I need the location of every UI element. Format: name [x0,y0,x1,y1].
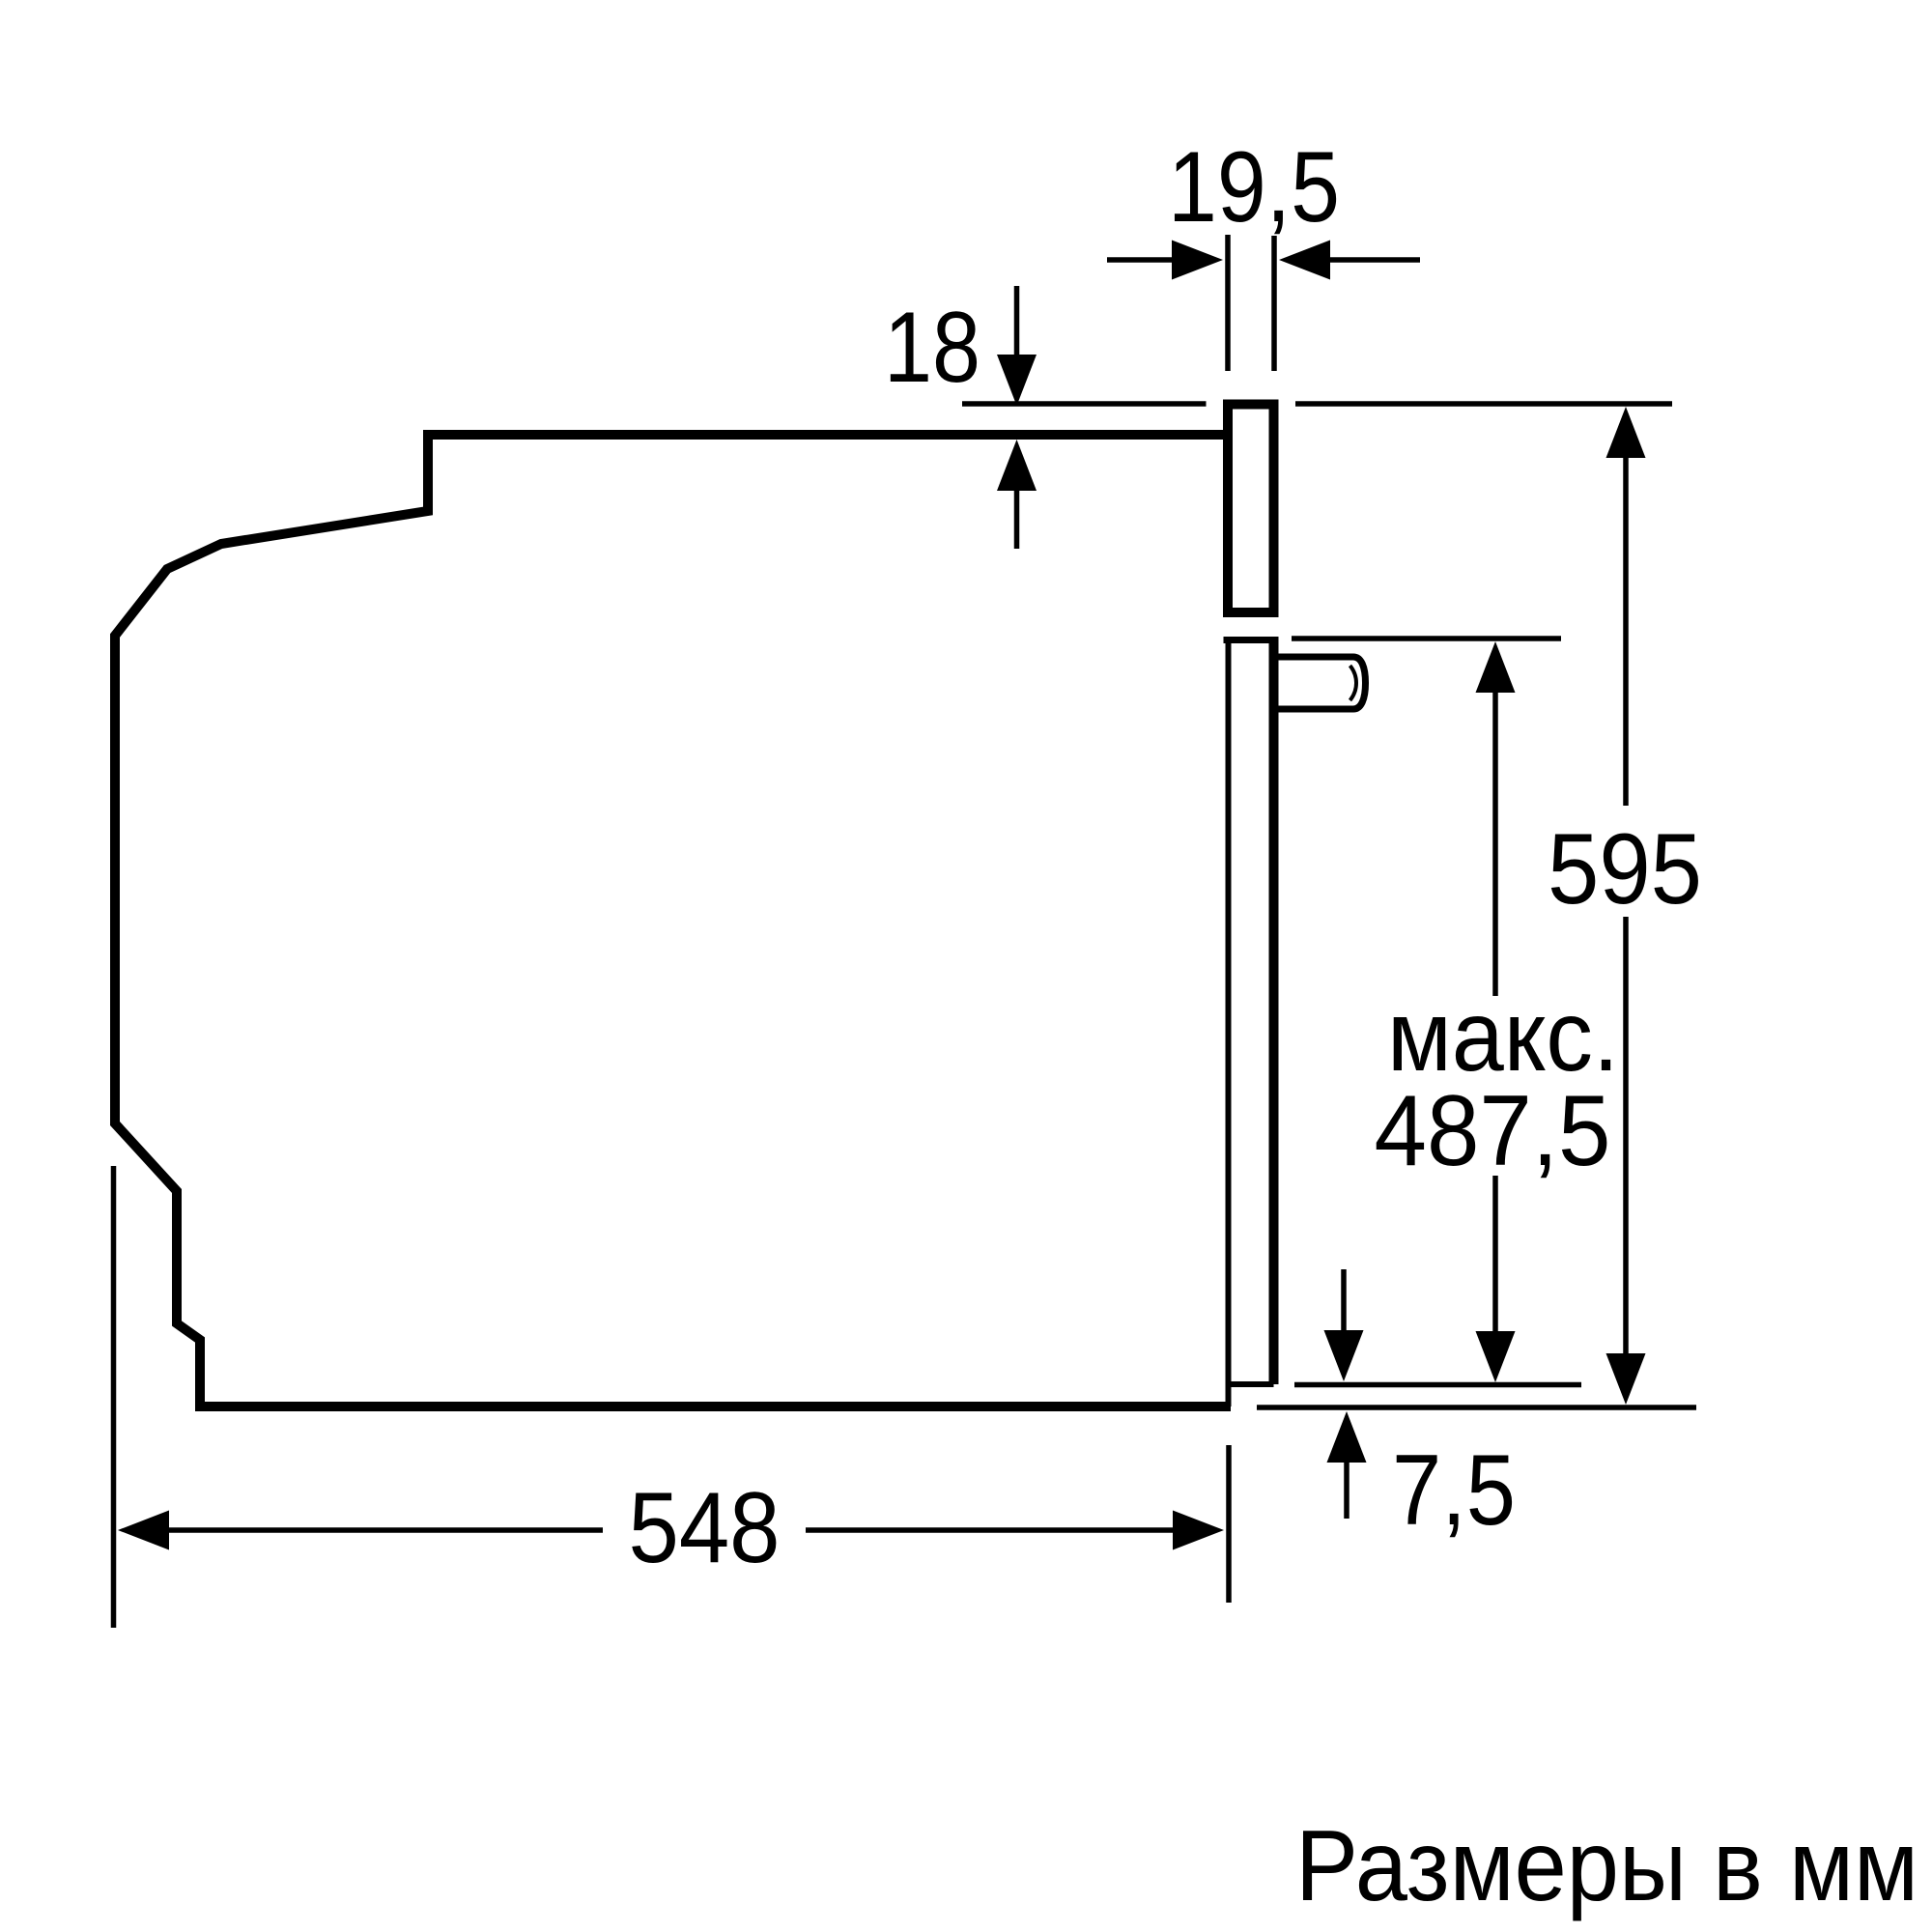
arrowhead 18 up [997,440,1037,491]
dimension line 595 upper segment [1623,456,1629,806]
arrowhead 19.5 right (points left) [1279,241,1330,280]
dimension line 7.5 lower tail [1344,1463,1350,1519]
extension line: 487.5 bottom [1294,1382,1581,1388]
arrowhead 548 right (points right) [1173,1511,1224,1550]
svg-text:548: 548 [629,1472,781,1584]
extension line: 548 right vertical [1226,1445,1232,1603]
extension line: top reference right (595 dim) [1295,401,1672,407]
svg-text:Размеры в мм: Размеры в мм [1295,1810,1918,1922]
svg-text:595: 595 [1548,813,1702,925]
control fascia (front top panel) [1228,405,1274,613]
dimension line 19.5 left segment [1107,257,1175,263]
arrowhead 595 top (points up) [1606,407,1646,458]
svg-text:487,5: 487,5 [1375,1075,1611,1187]
dimension line 487.5 lower segment [1492,1176,1498,1332]
door top edge [1224,637,1274,643]
knob (door handle) [1278,657,1366,709]
dimension line 595 lower segment [1623,917,1629,1354]
dimension line 548 left segment [169,1527,603,1533]
dimension line 7.5 upper tail [1341,1269,1347,1332]
extension line: 595 bottom [1257,1405,1696,1410]
extension line: 19.5 left vertical [1225,235,1231,371]
svg-text:18: 18 [884,292,980,404]
dimension line 548 right segment [806,1527,1173,1533]
svg-text:7,5: 7,5 [1392,1435,1516,1547]
arrowhead 487.5 bottom (points down) [1476,1331,1516,1382]
dimension line 487.5 upper segment [1492,691,1498,996]
door right edge [1269,637,1279,1384]
dimension line 18 lower tail [1014,491,1020,549]
door left edge [1226,640,1232,1385]
door bottom stub [1226,1384,1232,1406]
extension line: top reference left (18 dim) [962,401,1207,407]
arrowhead 18 down [997,355,1037,406]
arrowhead 595 bottom (points down) [1606,1353,1646,1405]
arrowhead 7.5 down [1324,1330,1364,1381]
extension line: 548 left vertical [111,1166,117,1628]
svg-text:19,5: 19,5 [1168,131,1340,243]
arrowhead 487.5 top (points up) [1476,641,1516,693]
arrowhead 19.5 left (points right) [1172,241,1223,280]
door bottom edge [1229,1381,1274,1387]
arrowhead 548 left (points left) [118,1511,169,1550]
dimension line 19.5 right segment [1327,257,1420,263]
knob face inner arc [1350,666,1357,700]
dimension line 18 upper tail [1014,286,1020,355]
extension line: 487.5 top [1292,636,1561,641]
extension line: 19.5 right vertical [1271,236,1277,371]
oven body outline [115,435,1231,1406]
arrowhead 7.5 up [1327,1411,1367,1463]
